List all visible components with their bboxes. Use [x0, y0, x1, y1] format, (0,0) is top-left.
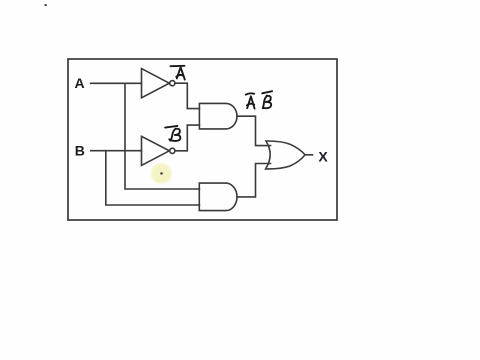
cursor highlight	[151, 163, 172, 184]
handwritten label A-bar B-bar above AND1 output	[246, 91, 272, 108]
stray dot top-left	[45, 4, 47, 6]
wire B branch down to AND2 bottom input	[106, 151, 200, 205]
wire A branch down to AND2 top input	[125, 83, 199, 189]
handwritten label B-bar above U2	[165, 126, 180, 141]
wire OR output	[305, 154, 313, 156]
or gate U5	[266, 141, 305, 169]
not gate U2 (B inverter)	[142, 136, 170, 165]
svg-text:A: A	[75, 75, 85, 91]
wire U2 output to AND1 bottom input	[175, 125, 200, 151]
svg-text:B: B	[75, 143, 85, 159]
svg-text:X: X	[318, 149, 328, 165]
wire A input	[91, 82, 142, 84]
wire U1 output to AND1 top input	[175, 83, 200, 108]
not gate U1 (A inverter)	[142, 69, 170, 98]
wire AND2 output to OR bottom input	[237, 164, 271, 197]
outer box	[68, 59, 337, 220]
wire AND1 output to OR top input	[237, 116, 271, 145]
and gate U4 (bottom)	[199, 183, 237, 211]
wire B input	[91, 150, 142, 152]
handwritten label A-bar above U1	[171, 66, 185, 80]
and gate U3 (top)	[199, 103, 237, 128]
